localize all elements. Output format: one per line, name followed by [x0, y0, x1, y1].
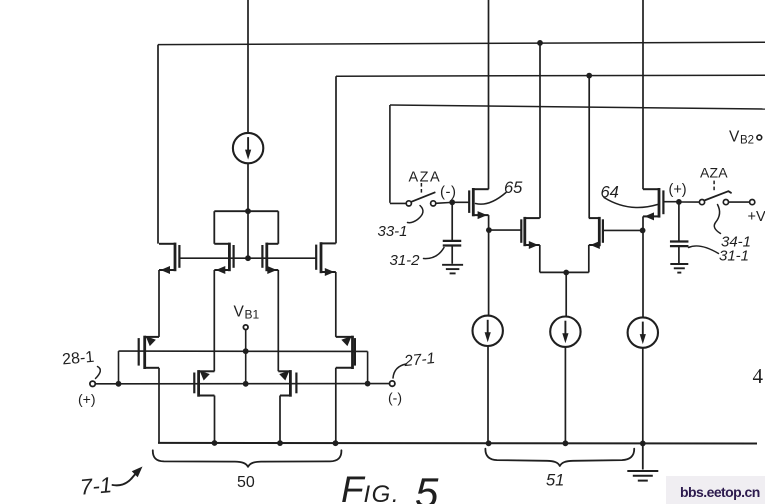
svg-text:AZA: AZA	[409, 170, 442, 186]
svg-text:51: 51	[546, 472, 564, 490]
svg-text:IG.: IG.	[364, 481, 401, 504]
svg-text:AZA: AZA	[700, 165, 728, 181]
svg-text:V: V	[234, 304, 245, 321]
svg-text:7-1: 7-1	[79, 472, 113, 500]
svg-text:65: 65	[504, 179, 523, 197]
svg-text:bbs.eetop.cn: bbs.eetop.cn	[680, 484, 760, 500]
svg-text:B2: B2	[740, 135, 754, 147]
svg-text:31-2: 31-2	[390, 252, 421, 269]
svg-text:28-1: 28-1	[62, 349, 95, 369]
svg-text:5: 5	[415, 469, 439, 504]
svg-text:(-): (-)	[440, 184, 457, 201]
svg-text:64: 64	[601, 184, 619, 202]
svg-text:B1: B1	[245, 308, 260, 322]
svg-text:33-1: 33-1	[378, 223, 408, 240]
svg-text:50: 50	[237, 474, 255, 491]
svg-text:4: 4	[753, 364, 764, 388]
svg-text:+V: +V	[748, 209, 765, 225]
svg-text:(-): (-)	[388, 390, 402, 406]
svg-text:(+): (+)	[669, 182, 687, 198]
svg-text:(+): (+)	[78, 391, 96, 407]
svg-text:31-1: 31-1	[719, 248, 749, 265]
svg-text:F: F	[341, 469, 366, 504]
svg-text:V: V	[729, 129, 740, 146]
svg-text:27-1: 27-1	[402, 350, 436, 370]
